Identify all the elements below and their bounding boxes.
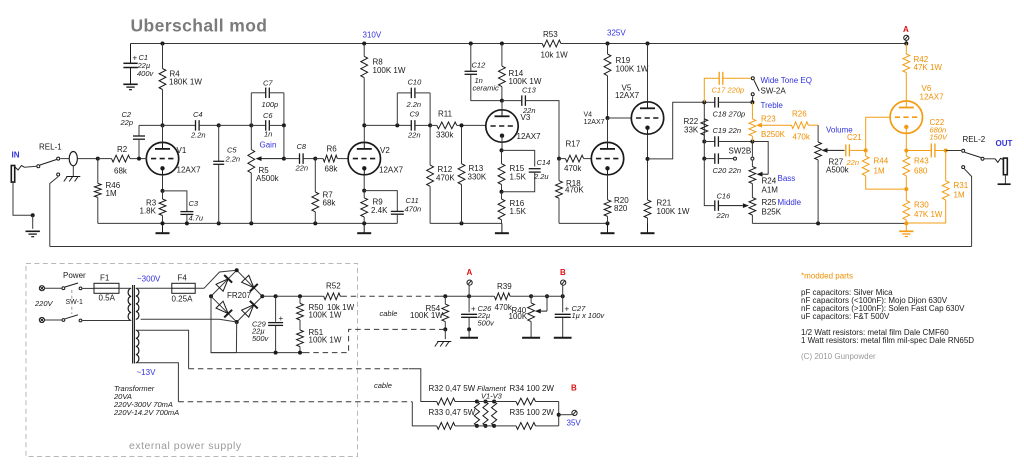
svg-text:ceramic: ceramic <box>473 83 500 92</box>
resistor R42 <box>903 44 943 102</box>
resistor R9 <box>361 175 388 224</box>
resistor R14 <box>499 44 542 103</box>
svg-text:R11: R11 <box>438 110 453 119</box>
title <box>131 16 268 36</box>
svg-text:A500k: A500k <box>256 174 280 183</box>
svg-text:400v: 400v <box>137 69 155 78</box>
svg-text:12AX7: 12AX7 <box>379 166 404 175</box>
ground OUT jack <box>998 183 1011 185</box>
svg-text:Wide Tone EQ: Wide Tone EQ <box>761 76 812 85</box>
wire supply 0V rail <box>211 351 304 355</box>
svg-text:REL-2: REL-2 <box>963 135 986 144</box>
capacitor C3 <box>163 191 204 224</box>
svg-text:R53: R53 <box>543 30 558 39</box>
capacitor C16 <box>704 159 731 220</box>
svg-text:C14: C14 <box>537 158 551 167</box>
capacitor C13 <box>502 86 561 161</box>
svg-text:0.5A: 0.5A <box>99 294 116 303</box>
svg-text:1M: 1M <box>954 191 965 200</box>
wire filament row 2 <box>412 402 436 426</box>
jack IN <box>11 166 34 229</box>
svg-text:22n: 22n <box>728 126 742 135</box>
resistor R32 <box>429 384 477 405</box>
svg-text:C8: C8 <box>297 142 307 151</box>
svg-text:12AX7: 12AX7 <box>615 91 640 100</box>
svg-text:68k: 68k <box>325 165 339 174</box>
transformer T1 primary <box>124 288 131 320</box>
power supply dashed box <box>26 264 358 457</box>
wire ground bus 2 <box>430 221 502 225</box>
svg-text:1.8K: 1.8K <box>140 207 157 216</box>
terminal mains L <box>39 286 44 291</box>
diode D1 <box>216 275 232 291</box>
terminal B supply <box>560 268 566 296</box>
svg-text:500v: 500v <box>478 318 496 327</box>
svg-text:C16: C16 <box>717 191 732 200</box>
resistor R11 <box>430 110 461 140</box>
svg-text:C5: C5 <box>227 146 237 155</box>
svg-text:100K 1W: 100K 1W <box>410 311 443 320</box>
svg-text:uF capacitors: F&T 500V: uF capacitors: F&T 500V <box>801 312 890 321</box>
svg-text:V4: V4 <box>584 112 593 119</box>
label V5 <box>615 84 640 101</box>
svg-text:1.5K: 1.5K <box>510 173 527 182</box>
resistor R33 <box>429 408 477 429</box>
resistor R50 <box>297 296 355 330</box>
svg-text:12AX7: 12AX7 <box>584 119 605 126</box>
cable ground return dashed <box>304 329 440 352</box>
svg-text:22n: 22n <box>407 131 421 140</box>
svg-text:R24: R24 <box>762 176 777 185</box>
wire bridge bottom <box>235 322 237 353</box>
svg-text:IN: IN <box>12 151 20 160</box>
svg-text:~13V: ~13V <box>137 368 157 377</box>
node V2 plate <box>362 123 366 127</box>
ground R40 <box>522 331 540 338</box>
resistor R39 <box>469 282 531 312</box>
svg-text:820: 820 <box>614 204 628 213</box>
label 220V <box>34 299 54 308</box>
potentiometer R27 <box>815 125 850 223</box>
svg-text:35V: 35V <box>567 419 582 428</box>
svg-text:1n: 1n <box>264 130 272 139</box>
wire F4 to bridge <box>195 270 237 288</box>
wire supply B+ row <box>262 294 341 298</box>
resistor R43 <box>903 151 929 192</box>
label Volume <box>826 126 853 135</box>
wiper R5 <box>256 125 286 161</box>
wire transformer to bridge AC <box>141 319 237 322</box>
resistor R46 <box>94 157 120 224</box>
svg-text:R34 100 2W: R34 100 2W <box>510 384 555 393</box>
capacitor C9 <box>407 110 432 140</box>
svg-text:R17: R17 <box>566 140 581 149</box>
wire bridge minus to rail <box>211 296 236 352</box>
label Gain <box>260 140 277 149</box>
svg-text:1M: 1M <box>106 189 117 198</box>
label V1 <box>177 146 202 175</box>
svg-text:R30: R30 <box>914 201 929 210</box>
svg-text:B: B <box>571 384 577 393</box>
resistor R20 <box>604 175 629 224</box>
svg-text:2.4K: 2.4K <box>371 206 388 215</box>
wire 310V/325V top rail <box>131 42 909 46</box>
svg-text:A1M: A1M <box>762 186 779 195</box>
svg-text:C13: C13 <box>522 86 537 95</box>
svg-text:V1-V3: V1-V3 <box>481 391 503 400</box>
label OUT <box>996 139 1013 148</box>
svg-text:68k: 68k <box>323 199 337 208</box>
capacitor C8 <box>284 142 317 173</box>
svg-text:C20: C20 <box>713 166 728 175</box>
diode D3 <box>216 301 232 317</box>
svg-text:+: + <box>471 305 476 314</box>
svg-text:B: B <box>560 268 566 277</box>
svg-text:1M: 1M <box>874 167 885 176</box>
resistor R15 <box>498 136 527 194</box>
svg-text:F4: F4 <box>178 274 188 283</box>
fuse F4 <box>172 274 196 304</box>
capacitor C17 <box>704 72 750 103</box>
label modded parts <box>801 272 853 281</box>
svg-text:~300V: ~300V <box>137 275 161 284</box>
note half watt <box>801 328 949 337</box>
svg-text:C3: C3 <box>189 199 199 208</box>
svg-text:220V: 220V <box>34 299 54 308</box>
transformer T1 secondary LV <box>136 330 189 402</box>
wire relay return <box>50 246 972 248</box>
resistor R22 <box>684 117 708 142</box>
label 310V <box>363 31 382 40</box>
resistor R18 <box>556 159 585 224</box>
svg-text:47K 1W: 47K 1W <box>914 63 943 72</box>
svg-text:10k 1W: 10k 1W <box>541 51 569 60</box>
capacitor C6 <box>251 111 286 139</box>
capacitor C22 <box>906 118 961 158</box>
resistor R17 <box>559 140 591 174</box>
svg-text:12AX7: 12AX7 <box>177 166 202 175</box>
svg-text:C9: C9 <box>410 110 420 119</box>
svg-text:0.25A: 0.25A <box>172 295 194 304</box>
capacitor C14 <box>502 150 551 191</box>
heater V2 <box>477 400 494 428</box>
svg-text:C12: C12 <box>472 60 487 69</box>
svg-text:100p: 100p <box>262 100 279 109</box>
transformer T1 core <box>133 285 135 364</box>
label V3 <box>517 113 542 141</box>
svg-text:A: A <box>903 25 909 34</box>
cable filament 2 dashed <box>178 401 412 403</box>
svg-text:2.2u: 2.2u <box>533 172 549 181</box>
svg-text:Middle: Middle <box>778 198 802 207</box>
svg-text:V2: V2 <box>380 146 390 155</box>
cable B+ dashed <box>341 296 440 318</box>
wiper R24 <box>752 142 768 177</box>
svg-text:Power: Power <box>63 271 86 280</box>
svg-text:R33 0,47 5W: R33 0,47 5W <box>429 408 476 417</box>
resistor R6 <box>315 145 348 174</box>
svg-text:1 Watt resistors: metal film m: 1 Watt resistors: metal film mil-spec Da… <box>801 336 974 345</box>
chassis ground REL-1 <box>64 177 81 182</box>
svg-text:Treble: Treble <box>761 101 784 110</box>
ground R21 <box>641 223 655 233</box>
ground V2 stage <box>357 223 371 233</box>
note nF small <box>801 296 948 305</box>
capacitor C2 <box>120 110 163 159</box>
svg-text:22n: 22n <box>522 106 536 115</box>
triode V4 <box>591 142 623 174</box>
svg-text:cable: cable <box>374 381 392 390</box>
ground V6 stage <box>899 223 913 236</box>
diode D2 <box>242 275 258 291</box>
wire V3 grid <box>460 123 486 127</box>
svg-text:REL-1: REL-1 <box>39 143 62 152</box>
svg-text:A: A <box>467 268 473 277</box>
capacitor C12 <box>465 44 502 101</box>
svg-text:Gain: Gain <box>260 140 277 149</box>
svg-text:180K 1W: 180K 1W <box>169 78 202 87</box>
label IN <box>12 151 20 160</box>
diode D4 <box>242 301 258 317</box>
svg-text:100K 1W: 100K 1W <box>309 310 342 319</box>
wire V1 coupling row <box>219 123 254 127</box>
potentiometer R25 middle <box>749 184 802 224</box>
svg-text:470k: 470k <box>564 164 582 173</box>
ground C26 <box>460 329 478 337</box>
svg-text:470k: 470k <box>793 133 811 142</box>
resistor R3 <box>140 175 166 224</box>
svg-text:C4: C4 <box>193 110 203 119</box>
svg-text:C6: C6 <box>263 111 273 120</box>
wiper R27 <box>822 148 845 153</box>
ground V1 stage <box>156 223 170 233</box>
svg-text:100K 1W: 100K 1W <box>616 65 649 74</box>
svg-text:22n: 22n <box>295 164 309 173</box>
svg-text:100K 1W: 100K 1W <box>657 207 690 216</box>
capacitor C26 <box>461 296 495 331</box>
resistor R51 <box>297 328 342 353</box>
svg-text:B250K: B250K <box>761 130 786 139</box>
svg-text:4.7u: 4.7u <box>189 214 204 223</box>
wire row to B <box>531 294 565 298</box>
label V2 <box>379 146 404 175</box>
label 35V <box>567 419 582 428</box>
note one watt <box>801 336 974 345</box>
svg-text:Bass: Bass <box>778 174 796 183</box>
svg-text:33K: 33K <box>684 125 699 134</box>
resistor R2 <box>98 145 147 176</box>
svg-text:R43: R43 <box>914 157 929 166</box>
triode V6 <box>890 101 922 133</box>
wire tone row C18 <box>704 100 754 104</box>
triode V1 <box>146 125 178 174</box>
potentiometer R40 <box>509 294 535 330</box>
svg-text:R52: R52 <box>326 282 341 291</box>
terminal A main <box>903 25 909 44</box>
resistor R31 <box>906 151 968 224</box>
svg-text:220p: 220p <box>727 86 745 95</box>
svg-text:R26: R26 <box>792 110 807 119</box>
wire V5 cathode to tone stack <box>646 100 707 161</box>
svg-text:470n: 470n <box>405 205 422 214</box>
capacitor C29 <box>251 296 284 352</box>
svg-text:SW-2A: SW-2A <box>761 87 787 96</box>
ground C1 <box>123 84 137 89</box>
svg-text:R35 100 2W: R35 100 2W <box>510 408 555 417</box>
wire V2 plate row <box>364 123 411 127</box>
svg-text:R39: R39 <box>497 282 512 291</box>
switch SW-1 pole B <box>45 315 125 322</box>
capacitor C11 <box>364 191 421 224</box>
svg-text:1µ x 100v: 1µ x 100v <box>572 311 606 320</box>
resistor R53 <box>541 30 569 60</box>
svg-text:C18: C18 <box>713 110 728 119</box>
note uF capacitors <box>801 312 890 321</box>
label 325V <box>607 29 626 38</box>
capacitor C20 <box>704 153 741 175</box>
resistor R44 <box>862 150 906 189</box>
label Wide Tone EQ <box>761 76 812 85</box>
resistor R34 <box>494 384 559 405</box>
wire filament row 1 <box>409 369 437 402</box>
svg-text:external power supply: external power supply <box>129 440 242 452</box>
label V4 <box>584 112 605 127</box>
svg-text:12AX7: 12AX7 <box>920 93 945 102</box>
svg-text:OUT: OUT <box>996 139 1013 148</box>
ground C27 <box>554 331 572 338</box>
wire B+ solid to A <box>440 294 471 298</box>
svg-text:22n: 22n <box>846 158 860 167</box>
wire REL-2 to OUT jack <box>985 158 996 160</box>
capacitor C10 <box>397 78 430 126</box>
svg-text:47K 1W: 47K 1W <box>914 210 943 219</box>
svg-text:100K 1W: 100K 1W <box>309 335 342 344</box>
svg-text:C10: C10 <box>408 78 423 87</box>
label V6 <box>920 84 945 102</box>
svg-text:22n: 22n <box>728 166 742 175</box>
capacitor C4 <box>163 110 219 140</box>
svg-text:22n: 22n <box>716 211 730 220</box>
capacitor C19 <box>702 102 754 146</box>
svg-text:SW2B: SW2B <box>729 147 752 156</box>
svg-text:B25K: B25K <box>762 207 782 216</box>
label ~300V <box>137 275 161 284</box>
svg-text:310V: 310V <box>363 31 382 40</box>
wire return to R54 <box>440 328 445 330</box>
copyright <box>801 352 876 361</box>
wiper R25 <box>719 203 749 208</box>
svg-text:270p: 270p <box>728 110 746 119</box>
resistor R13 <box>458 125 487 223</box>
terminal mains N <box>39 317 44 322</box>
svg-text:470K: 470K <box>436 174 455 183</box>
capacitor C21 <box>846 133 868 167</box>
svg-text:325V: 325V <box>607 29 626 38</box>
transformer T1 secondary HV <box>136 288 172 319</box>
wiper R23 <box>756 123 791 128</box>
svg-text:150V: 150V <box>930 133 949 142</box>
wire tone row C20 <box>702 142 706 161</box>
cable filament 1 dashed <box>189 369 409 390</box>
chassis ground R54 <box>435 342 452 347</box>
potentiometer R23 treble <box>749 101 786 142</box>
triode V3 <box>486 101 518 143</box>
node V1 plate <box>161 123 165 127</box>
resistor R7 <box>312 159 336 224</box>
wiper R40 <box>535 294 549 313</box>
svg-text:C17: C17 <box>712 86 727 95</box>
resistor R19 <box>604 44 649 119</box>
resistor R8 <box>361 44 406 126</box>
svg-text:Uberschall mod: Uberschall mod <box>131 16 268 36</box>
capacitor C5 <box>213 123 240 223</box>
svg-text:220V-14.2V 700mA: 220V-14.2V 700mA <box>113 408 179 417</box>
triode V2 <box>348 125 380 174</box>
resistor R16 <box>498 192 527 224</box>
svg-text:100K: 100K <box>509 312 528 321</box>
switch SW-2A <box>751 77 759 103</box>
resistor R35 <box>494 408 559 429</box>
wire ground bus 1 <box>98 221 398 225</box>
svg-text:(C) 2010 Gunpowder: (C) 2010 Gunpowder <box>801 352 876 361</box>
svg-text:V1: V1 <box>177 146 187 155</box>
wire V4 plate to V5 grid <box>606 116 632 142</box>
potentiometer R5 <box>248 125 280 223</box>
capacitor C18 <box>713 97 753 118</box>
note pF capacitors <box>801 288 893 297</box>
svg-text:1.5K: 1.5K <box>510 207 527 216</box>
svg-text:C19: C19 <box>713 126 728 135</box>
svg-text:330k: 330k <box>436 131 454 140</box>
label REL-2 <box>963 135 986 144</box>
switch SW-1 link <box>71 290 73 314</box>
svg-text:12AX7: 12AX7 <box>517 132 542 141</box>
resistor R30 <box>903 189 943 223</box>
ground IN jack <box>26 231 40 236</box>
svg-text:F1: F1 <box>100 274 110 283</box>
label Power <box>63 271 86 280</box>
svg-text:SW-1: SW-1 <box>66 299 83 306</box>
svg-text:2.2n: 2.2n <box>225 155 241 164</box>
svg-text:cable: cable <box>380 309 398 318</box>
triode V5 <box>631 44 663 159</box>
capacitor C7 <box>251 79 284 126</box>
svg-text:C7: C7 <box>263 79 273 88</box>
resistor R26 <box>791 110 818 142</box>
relay REL-1 contacts <box>25 157 60 246</box>
svg-text:330K: 330K <box>468 173 487 182</box>
resistor R21 <box>644 159 690 227</box>
wire filament join <box>557 402 572 426</box>
svg-text:R31: R31 <box>954 181 969 190</box>
label REL-1 <box>39 143 62 152</box>
svg-text:2.2n: 2.2n <box>406 100 422 109</box>
svg-text:R44: R44 <box>874 157 889 166</box>
heater V3 <box>492 400 497 428</box>
label transformer specs <box>113 384 179 417</box>
svg-text:C21: C21 <box>847 133 862 142</box>
resistor R4 <box>159 44 202 126</box>
resistor R12 <box>427 125 456 223</box>
svg-text:500v: 500v <box>252 334 270 343</box>
fuse F1 <box>94 274 124 303</box>
rectifier FR207 frame <box>209 268 264 324</box>
svg-text:68k: 68k <box>114 167 128 176</box>
wire volume node to V6 grid <box>866 117 890 150</box>
terminal A supply <box>467 268 473 296</box>
svg-text:FR207: FR207 <box>227 291 252 300</box>
ground V3 stage <box>495 223 509 233</box>
